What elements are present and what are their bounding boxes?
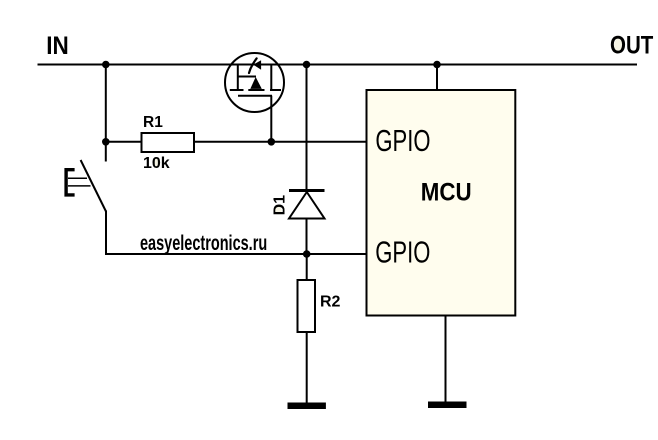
wire R2 top lead xyxy=(306,254,308,281)
svg-text:10k: 10k xyxy=(143,155,170,172)
resistor R1 xyxy=(142,133,195,152)
transistor Q1 channel segments xyxy=(230,89,281,91)
ground under R2 xyxy=(288,403,326,410)
transistor Q1 slash through rail arrow xyxy=(249,58,257,73)
svg-text:OUT: OUT xyxy=(610,30,653,58)
ground under MCU xyxy=(428,402,467,409)
wire MCU bottom lead xyxy=(445,316,447,403)
wire from IN node down to switch xyxy=(105,65,107,162)
node OUT xyxy=(610,30,653,58)
wire R1 row right to MCU GPIO xyxy=(194,141,367,143)
junction node at MCU top lead xyxy=(433,61,441,69)
MCU U1 box xyxy=(367,90,516,316)
transistor Q1 body arrow (P-channel, pointing up) xyxy=(250,77,261,89)
wire R2 bottom lead xyxy=(306,332,308,403)
junction node at D1 bottom / R2 top xyxy=(303,250,311,258)
transistor Q1 body tap line xyxy=(238,76,256,78)
transistor Q1 rail arrow xyxy=(253,60,261,70)
resistor R2 xyxy=(298,280,316,332)
wire gate lead down to R1 row xyxy=(270,96,272,142)
wire D1 branch vertical xyxy=(306,65,308,255)
wire switch bottom lead xyxy=(105,211,107,256)
junction node at D1 top xyxy=(303,61,311,69)
transistor Q1 gate plate xyxy=(238,95,272,97)
wire MCU top lead xyxy=(436,65,438,91)
transistor Q1 body circle xyxy=(225,53,284,112)
svg-text:R1: R1 xyxy=(143,114,163,131)
pushbutton S1 xyxy=(66,160,106,212)
svg-text:MCU: MCU xyxy=(421,178,472,207)
label D1 (rotated) xyxy=(272,195,289,216)
transistor Q1 source tap xyxy=(237,65,239,91)
wire bottom rail to MCU GPIO xyxy=(105,253,367,255)
svg-text:IN: IN xyxy=(46,32,68,60)
label 10k xyxy=(143,155,170,172)
junction node at R1 left xyxy=(102,138,110,146)
wire R1 row left xyxy=(106,141,142,143)
transistor Q1 drain tap xyxy=(270,65,272,91)
diode D1 (zener-less vertical diode, anode below) xyxy=(289,191,325,219)
svg-text:easyelectronics.ru: easyelectronics.ru xyxy=(140,231,267,254)
wire top rail IN to OUT xyxy=(38,64,638,66)
svg-text:GPIO: GPIO xyxy=(375,123,430,157)
junction node at gate lead xyxy=(268,138,276,146)
svg-text:R2: R2 xyxy=(320,293,341,310)
svg-text:GPIO: GPIO xyxy=(375,235,430,269)
svg-text:D1: D1 xyxy=(272,195,289,216)
junction node at IN column xyxy=(102,61,110,69)
